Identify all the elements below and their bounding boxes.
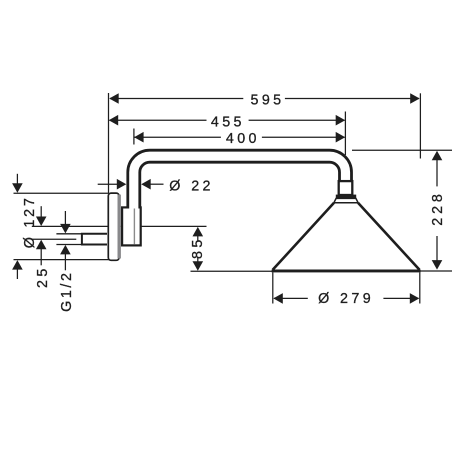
- dimension 85: [197, 235, 199, 264]
- svg-text:Ø 127: Ø 127: [22, 195, 38, 248]
- extension line: cone bottom right: [421, 270, 452, 272]
- svg-text:25: 25: [35, 265, 51, 288]
- dimension G1/2: [64, 211, 66, 270]
- dimension diameter 127: [16, 174, 18, 279]
- dimension 400 left arrow: [134, 132, 144, 143]
- svg-text:595: 595: [250, 93, 284, 109]
- supply nipple G1/2 (thin pipe outlines): [56, 234, 81, 245]
- svg-text:Ø 22: Ø 22: [169, 179, 214, 195]
- extension line: supply pipe centerline: [32, 238, 77, 240]
- dimension diameter 279: [274, 297, 419, 299]
- dimension 400 line: [135, 136, 345, 138]
- dimension 455 left arrow: [109, 115, 119, 126]
- dimension 228: [436, 159, 438, 263]
- dimension diameter 22: [98, 183, 164, 185]
- extension line: cone bottom left: [191, 270, 273, 272]
- extension line: right pipe axis (right end of 455/400): [344, 112, 346, 156]
- dimension 455 right arrow: [336, 115, 346, 126]
- dimension 279 left arrow: [273, 293, 283, 304]
- shower arm pipe outer: [134, 156, 346, 208]
- svg-text:228: 228: [430, 190, 446, 226]
- extension line: plate top: [14, 192, 110, 194]
- shower arm pipe bore (white): [134, 156, 346, 208]
- head flange dark bar: [336, 195, 356, 199]
- svg-text:455: 455: [211, 114, 245, 130]
- extension line: left pipe axis (left end of 400): [133, 129, 135, 145]
- shower head cone bottom rim: [272, 270, 421, 273]
- dimension 127 top arrow (down): [12, 183, 23, 193]
- extension line: right end of 595 / cone right edge: [419, 93, 421, 158]
- dimension 85 top arrow (up): [193, 227, 204, 237]
- arm connector inner highlight line: [133, 209, 135, 245]
- svg-text:G1/2: G1/2: [59, 270, 75, 311]
- dimension 400 right arrow: [336, 132, 346, 143]
- dimension 595 left arrow: [109, 93, 119, 104]
- svg-text:Ø 279: Ø 279: [318, 291, 374, 307]
- shower head cone: [273, 203, 420, 270]
- extension line: cone bottom-left corner down: [272, 273, 274, 304]
- extension line: arm top edge towards 228: [352, 149, 452, 151]
- dimension G1/2 top arrow (down): [60, 224, 71, 234]
- arm connector block: [122, 207, 141, 245]
- supply pipe stub: [82, 234, 107, 245]
- head connector nut: [339, 181, 353, 195]
- extension line: wall plane (left end of 595/455): [108, 93, 110, 193]
- dimension 127 bottom arrow (up): [12, 260, 23, 270]
- wall plate: [108, 193, 119, 260]
- dimension 228 top arrow (up): [432, 151, 443, 161]
- extension line: cone bottom-right corner down: [419, 273, 421, 304]
- dimension 85 bottom arrow (down): [193, 261, 204, 271]
- svg-text:85: 85: [190, 236, 206, 259]
- dimension 595 line: [110, 98, 419, 100]
- dimension 25: [40, 206, 42, 265]
- extension line: arm connector axis: [32, 225, 207, 227]
- dimension 279 right arrow: [410, 293, 420, 304]
- dimension 25 bottom arrow (up): [36, 240, 47, 250]
- svg-text:400: 400: [226, 131, 260, 147]
- dimension 595 right arrow: [410, 93, 420, 104]
- head cap trapezoid: [334, 198, 358, 202]
- extension line: plate bottom: [14, 259, 110, 261]
- dimension 22 right arrow (points left at pipe): [141, 179, 151, 190]
- dimension 228 bottom arrow (down): [432, 260, 443, 270]
- wall plate side shading (gray depth): [118, 195, 121, 259]
- dimension 25 top arrow (down): [36, 217, 47, 227]
- dimension 22 left arrow (points right at pipe): [117, 179, 127, 190]
- dimension G1/2 bottom arrow (up): [60, 245, 71, 255]
- dimension 455 line: [110, 119, 345, 121]
